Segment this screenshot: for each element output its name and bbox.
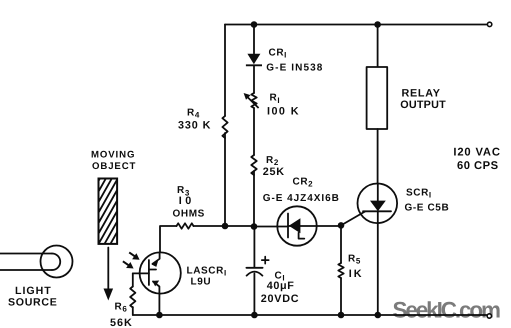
svg-text:G-E C5B: G-E C5B: [405, 202, 450, 213]
svg-text:MOVING: MOVING: [91, 150, 135, 161]
svg-text:G-E 4JZ4XI6B: G-E 4JZ4XI6B: [263, 193, 340, 204]
svg-text:OBJECT: OBJECT: [92, 161, 136, 172]
svg-text:OHMS: OHMS: [173, 208, 205, 219]
svg-text:60 CPS: 60 CPS: [457, 160, 499, 172]
svg-text:I00 K: I00 K: [267, 106, 300, 118]
svg-text:I20 VAC: I20 VAC: [453, 147, 500, 159]
svg-text:OUTPUT: OUTPUT: [400, 99, 446, 111]
svg-text:I0: I0: [179, 195, 195, 207]
svg-text:56K: 56K: [110, 317, 133, 328]
svg-text:SeekIC.com: SeekIC.com: [393, 298, 502, 323]
svg-text:SCRI: SCRI: [406, 187, 432, 199]
svg-text:L9U: L9U: [191, 277, 212, 288]
svg-text:330 K: 330 K: [178, 120, 211, 132]
svg-text:RELAY: RELAY: [402, 88, 441, 100]
svg-text:G-E IN538: G-E IN538: [266, 63, 323, 74]
svg-text:20VDC: 20VDC: [261, 293, 300, 305]
svg-text:SOURCE: SOURCE: [8, 297, 58, 309]
svg-text:IK: IK: [349, 268, 364, 280]
svg-text:LIGHT: LIGHT: [15, 285, 52, 297]
svg-text:40μF: 40μF: [267, 280, 295, 292]
svg-text:25K: 25K: [263, 166, 285, 178]
